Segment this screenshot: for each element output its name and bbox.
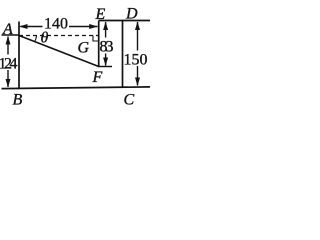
wire: tick left of A for 124 dimension xyxy=(2,34,20,36)
svg-text:83: 83 xyxy=(100,39,114,56)
dimension 140: left arrow xyxy=(19,24,43,29)
wire: segment DC vertical xyxy=(122,21,124,88)
dimension 83: down arrow xyxy=(103,54,108,67)
svg-text:124: 124 xyxy=(0,55,18,72)
svg-text:150: 150 xyxy=(124,52,148,69)
svg-text:B: B xyxy=(13,92,23,109)
svg-text:F: F xyxy=(92,69,103,86)
dimension 150: down arrow xyxy=(135,66,140,86)
dimension 124: down arrow xyxy=(6,70,11,88)
dimension 140: right arrow xyxy=(69,24,98,29)
svg-text:140: 140 xyxy=(44,16,68,33)
svg-text:E: E xyxy=(95,6,106,23)
wire: segment AB (left vertical A to B) xyxy=(18,36,20,89)
wire: dashed sight line A to G xyxy=(19,35,99,37)
svg-text:G: G xyxy=(78,40,90,57)
svg-text:A: A xyxy=(2,21,13,38)
svg-text:D: D xyxy=(125,6,138,23)
wire: bottom line through B and C xyxy=(2,87,151,89)
node G right-angle mark xyxy=(93,36,99,42)
wire: extension line above A for 140 dimension xyxy=(18,22,20,36)
wire: tick right of F for 83 dimension xyxy=(98,66,112,68)
angle arc at A xyxy=(35,36,37,42)
wire: top line through E and D xyxy=(99,20,150,22)
svg-text:C: C xyxy=(124,92,135,109)
wire: segment EF vertical xyxy=(98,21,100,67)
dimension 150: up arrow xyxy=(135,22,140,51)
wire: diagonal segment AF xyxy=(19,36,99,67)
dimension 124: up arrow xyxy=(6,36,11,55)
dimension 83: up arrow xyxy=(103,22,108,38)
